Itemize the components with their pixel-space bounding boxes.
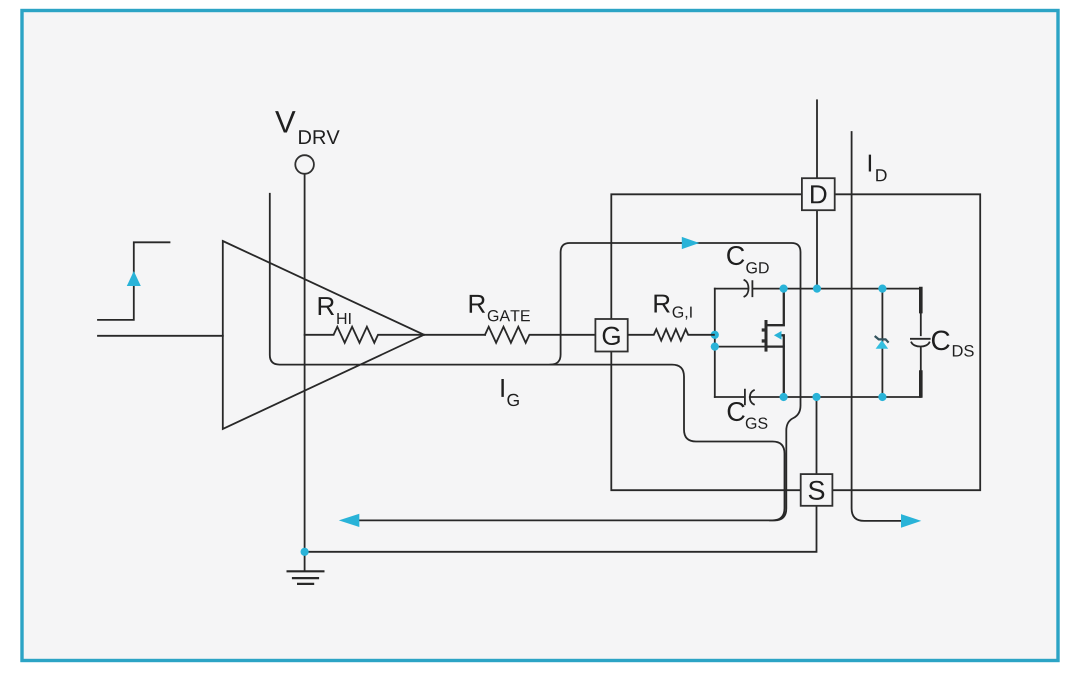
arrow up on input step [127,271,141,286]
node gate lead junction [711,343,719,351]
body diode triangle [876,340,889,349]
MOSFET Q1 [762,289,784,397]
wire input to driver [98,335,223,337]
wire I_D current path with bend [852,132,902,521]
terminal D box [802,178,835,210]
wire D to drain rail [816,211,818,289]
source stub and vertical [768,347,784,397]
ground symbol [288,571,324,584]
gate bar [765,320,768,352]
label R_GATE [470,295,485,313]
label C_DS [932,330,950,350]
label R_HI [319,297,334,315]
channel ticks [762,328,765,331]
wire C_GS rail [715,396,921,398]
label R_G,I [654,295,669,313]
node drain-rail / MOSFET drain junction [780,285,788,293]
label V_DRV [275,111,295,132]
node gate / R_G,I junction [711,331,719,339]
wire gate loop left side and rails [714,289,716,397]
capacitor C_GD [744,280,752,297]
wire drain above D [816,100,818,178]
wire S box verticals and ground run [305,397,817,552]
MOSFET body arrow [774,331,782,340]
wire V_DRV rail vertical [304,174,306,571]
capacitor C_DS thick stubs [919,289,923,396]
input step waveform [98,242,170,320]
arrow right on I_G loop [682,237,700,249]
wire driver output [424,334,485,336]
capacitor C_DS thin leads and plates [911,312,930,372]
capacitor C_GS [745,390,754,405]
node source-rail / body diode junction [878,393,886,401]
node drain-rail / body diode junction [878,285,886,293]
label C_GS [728,402,745,421]
resistor R_HI [305,327,424,343]
node drain-rail / D terminal junction [813,285,821,293]
node source-rail / S terminal junction [812,393,820,401]
drain stub and vertical [768,289,784,326]
label I_D [869,155,871,172]
terminal G box [595,319,627,352]
node source-rail / MOSFET source junction [780,393,788,401]
wire I_G loop upper branch [551,243,801,520]
big MOSFET boundary box [611,194,980,490]
label C_GD [727,246,744,265]
terminal S box [801,474,833,506]
resistor R_G,I zigzag [628,329,715,340]
V_DRV terminal circle [295,155,314,174]
wire gate lead to MOSFET [715,346,765,348]
body stub [780,335,784,346]
label I_G [501,379,503,397]
resistor R_GATE [485,327,595,343]
arrow left on return path [339,514,360,527]
wire C_GD rail [715,288,921,290]
op-amp U1 driver triangle [223,241,424,429]
zener bar of body diode [875,336,889,343]
node ground junction [301,548,309,556]
arrow right on I_D path [901,514,921,528]
wire I_G loop lower (gate charge path) [270,194,785,521]
body diode wire [881,289,883,397]
